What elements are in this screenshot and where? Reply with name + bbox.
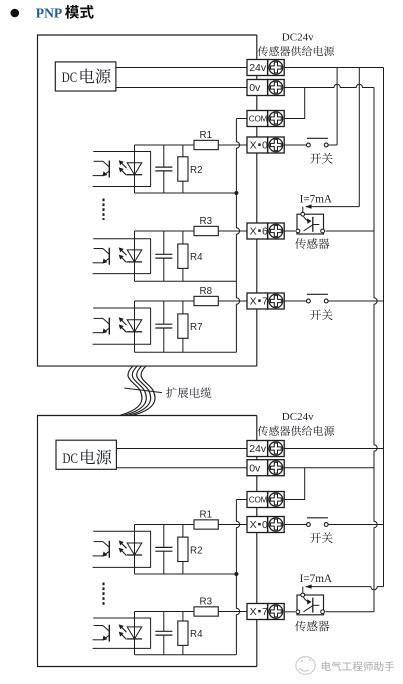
COM rail unit2 [236,499,247,501]
R branch [182,525,184,538]
wire resistor to terminal (COM rail hops over) [218,230,247,232]
unit 2 right edge segments [256,416,258,667]
resistor R3 [194,596,218,616]
svg-text:I=7mA: I=7mA [300,573,332,585]
svg-text:I=7mA: I=7mA [300,193,332,205]
扩展电缆 label [166,387,177,398]
optocoupler envelope [93,531,151,567]
resistor R7 [178,314,203,338]
resistor R1 [194,509,218,529]
svg-text:0v: 0v [249,82,261,94]
开关 label u1b [310,310,321,320]
LED diode [127,627,142,639]
expansion cable squiggle [120,366,162,415]
svg-text:R1: R1 [200,509,213,520]
DC power supply box unit2 [56,440,116,469]
wire DC+ to 24v u2 [116,448,247,450]
switch X*0 u2 [284,518,383,527]
svg-text:R3: R3 [200,216,213,227]
title bullet [11,9,20,18]
input channel 3 unit1 [93,286,247,353]
bottom wire [135,351,237,353]
continuation dashes unit2 [102,583,104,606]
svg-text:24v: 24v [249,62,267,74]
wire DC+ to 24v u1 [116,67,247,69]
terminal 24v u2 [247,441,284,457]
resistor R1 [194,130,218,150]
phototransistor [108,248,110,265]
resistor R4 [178,621,203,645]
DC电源 text unit2 [63,449,112,466]
capacitor [155,145,172,193]
bottom wire [135,192,237,194]
LED diode [127,163,142,175]
wire DC- to 0v u1 [116,87,247,89]
svg-text:R3: R3 [200,596,213,607]
switch feed vertical u1 [336,68,338,146]
sensor right wire u1 [325,230,374,232]
phototransistor [108,541,110,558]
R2 branch [182,145,184,157]
capacitor [155,231,172,281]
capacitor [155,525,172,575]
optocoupler envelope [93,308,151,344]
junction dot ch1 u1 [234,191,238,195]
capacitor [155,301,172,352]
svg-text:DC24v: DC24v [282,411,314,423]
wire resistor to terminal (COM rail hops over) [218,300,247,302]
input channel 1 unit1 [93,130,247,193]
top wire [135,144,195,146]
24v wire right u2 [284,448,383,450]
LED vertical conductor [134,525,136,575]
开关 label u1a [310,153,321,163]
light arrows [122,163,127,168]
bottom wire [135,573,237,575]
footer logo icon [296,657,315,675]
optocoupler envelope [93,618,151,648]
terminal X*0 u1 [247,137,284,153]
svg-text:0: 0 [262,519,268,531]
svg-text:DC: DC [62,70,77,86]
resistor R8 [194,286,218,306]
0v wire right u2 [284,467,374,469]
resistor R4 [178,244,203,268]
header 传感器供给电源 unit2 [258,426,268,436]
svg-text:PNP: PNP [36,5,62,20]
R2 branch [182,231,184,244]
LED vertical conductor [134,612,136,655]
resistor R2 [178,157,203,181]
传感器 label u2 [295,621,306,632]
light arrows [122,250,127,255]
0v supply wire right u1 (hops) [284,84,374,87]
开关 label u2 [310,533,321,543]
top wire [135,300,195,302]
COM to 0v link u1 [284,88,305,119]
svg-text:COM: COM [249,495,268,504]
unit 1 right edge segments [256,35,258,366]
svg-text:COM: COM [249,114,268,123]
input channel 2 unit2 [93,596,247,655]
sensor feed vertical u1 [358,68,360,207]
svg-text:R2: R2 [190,165,203,176]
light arrows [122,320,127,325]
svg-text:DC: DC [63,451,78,467]
input channel 2 unit1 [93,216,247,281]
24v supply wire right u1 [284,67,383,69]
svg-text:X: X [250,606,257,618]
COM to 0v link u2 [284,468,305,500]
传感器 label u1 [295,238,306,249]
wire resistor to terminal (COM rail hops over) [218,144,247,146]
svg-text:R8: R8 [200,286,213,297]
resistor R3 [194,216,218,236]
PLC unit 2 box [38,416,257,667]
sensor feed u2: from 24v rail left with hop [371,587,384,590]
switch X*0 u1 [284,138,337,147]
bottom wire [135,280,237,282]
svg-text:6: 6 [262,226,268,238]
LED diode [127,250,142,262]
terminal COM u2 [247,492,284,508]
svg-text:X: X [250,226,257,238]
terminal X*7 u2 [247,604,284,620]
svg-text:X: X [250,140,257,152]
DC电源 text unit1 [62,69,111,86]
top wire [135,230,195,232]
header 传感器供给电源 unit1 [258,46,268,56]
sensor u2 [296,593,325,615]
terminal 0v u2 [247,460,284,476]
0v vertical rail (hops switch/sensor wires) [374,88,377,612]
top wire [135,611,195,613]
light arrows [122,543,127,548]
LED diode [127,543,142,555]
resistor R2 [178,537,203,561]
terminal COM u1 [247,111,284,127]
input channel 1 unit2 [93,509,247,574]
I=7mA arrow u1 [305,204,359,208]
optocoupler envelope [93,239,151,274]
terminal 0v u1 [247,80,284,96]
wire DC- to 0v u2 [116,467,247,469]
capacitor [155,612,172,655]
wire resistor to terminal (COM rail hops over) [218,524,247,526]
LED diode [127,320,142,332]
svg-text:X: X [250,519,257,531]
svg-text:DC24v: DC24v [282,31,314,43]
top wire [135,524,195,526]
LED vertical conductor [134,145,136,193]
terminal X*0 u2 [247,517,284,533]
LED vertical conductor [134,231,136,281]
svg-text:7: 7 [262,606,268,618]
phototransistor [108,318,110,335]
svg-text:0v: 0v [249,462,261,474]
svg-text:R2: R2 [190,545,203,556]
svg-text:24v: 24v [249,443,267,455]
24v vertical rail [383,68,385,587]
terminal X*6 u1 [247,223,284,239]
phototransistor [108,161,110,178]
phototransistor [108,625,110,642]
cable tick line [124,388,162,393]
svg-text:0: 0 [262,140,268,152]
footer text 电气工程师助手 [322,661,331,671]
svg-text:R7: R7 [190,322,203,333]
R branch [182,612,184,622]
wire resistor to terminal (COM rail hops over) [218,611,247,613]
title 模式 [65,5,79,19]
junction dot ch1 u2 [234,572,238,576]
terminal 24v u1 [247,60,284,76]
continuation dashes unit1 [102,199,104,221]
PLC unit 1 box [38,35,257,366]
svg-text:X: X [250,296,257,308]
sensor right wire u2 [325,611,374,613]
R2 branch [182,301,184,314]
svg-text:7: 7 [262,296,268,308]
svg-text:R1: R1 [200,130,213,141]
bottom wire [135,654,237,656]
sensor left wire u2 [284,611,295,613]
svg-text:R4: R4 [190,252,203,263]
terminal X*7 u1 [247,293,284,309]
DC power supply box unit1 [55,62,116,91]
sensor u1 [296,212,325,234]
COM rail unit1 [236,118,247,120]
optocoupler envelope [93,152,151,187]
LED vertical conductor [134,301,136,352]
switch X*7 u1 [284,294,383,303]
light arrows [122,627,127,632]
svg-text:R4: R4 [190,629,203,640]
sensor left wire u1 [284,230,295,232]
